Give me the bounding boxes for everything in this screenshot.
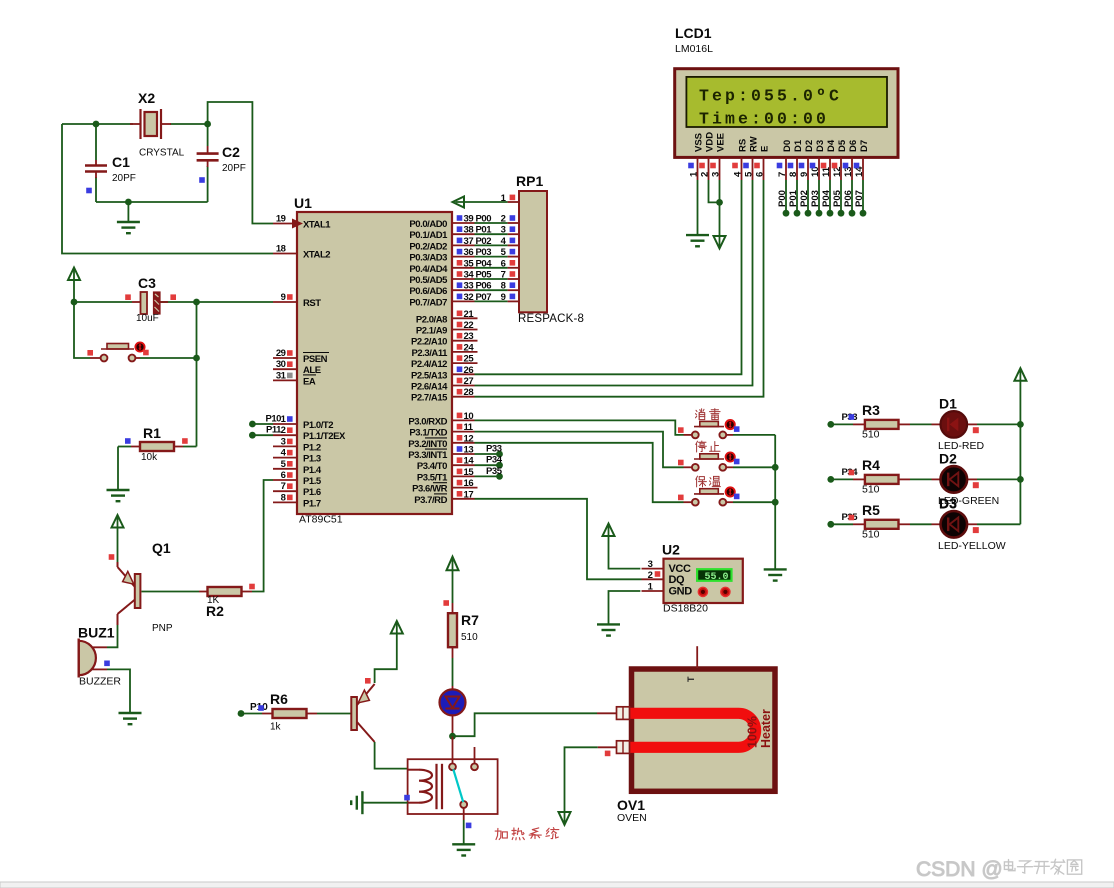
svg-text:100%: 100% xyxy=(746,716,760,748)
svg-text:D7: D7 xyxy=(859,140,870,152)
svg-text:35: 35 xyxy=(464,258,475,269)
svg-text:LCD1: LCD1 xyxy=(675,25,712,41)
svg-text:P0.0/AD0: P0.0/AD0 xyxy=(409,219,447,230)
svg-text:BUZZER: BUZZER xyxy=(79,676,121,688)
svg-text:D3: D3 xyxy=(939,495,957,511)
svg-text:6: 6 xyxy=(755,172,766,177)
svg-text:AT89C51: AT89C51 xyxy=(299,514,343,526)
svg-text:6: 6 xyxy=(501,258,506,269)
svg-text:RESPACK-8: RESPACK-8 xyxy=(518,313,584,325)
svg-text:38: 38 xyxy=(464,225,474,236)
svg-text:P34: P34 xyxy=(486,455,503,466)
svg-text:BUZ1: BUZ1 xyxy=(78,625,115,641)
svg-text:510: 510 xyxy=(461,632,478,643)
svg-text:20PF: 20PF xyxy=(222,163,246,174)
svg-text:P3.0/RXD: P3.0/RXD xyxy=(408,416,447,427)
svg-text:C3: C3 xyxy=(138,275,156,291)
svg-text:8: 8 xyxy=(281,492,286,503)
svg-text:P1.2: P1.2 xyxy=(303,442,321,453)
svg-text:Time:00:00: Time:00:00 xyxy=(699,110,829,129)
svg-text:R7: R7 xyxy=(461,612,479,628)
svg-text:PNP: PNP xyxy=(152,623,173,634)
svg-text:P06: P06 xyxy=(843,190,854,207)
svg-text:D1: D1 xyxy=(939,395,957,411)
svg-text:LED-YELLOW: LED-YELLOW xyxy=(938,540,1006,552)
svg-text:11: 11 xyxy=(464,422,474,433)
svg-text:P2.4/A12: P2.4/A12 xyxy=(411,359,447,370)
svg-text:26: 26 xyxy=(464,365,474,376)
svg-text:E: E xyxy=(759,146,770,152)
svg-text:9: 9 xyxy=(501,292,506,303)
svg-text:P3.2/INT0: P3.2/INT0 xyxy=(408,439,447,450)
svg-text:CRYSTAL: CRYSTAL xyxy=(139,148,185,159)
svg-text:9: 9 xyxy=(799,172,810,177)
svg-text:LM016L: LM016L xyxy=(675,43,713,55)
svg-text:R2: R2 xyxy=(206,603,224,619)
svg-text:2: 2 xyxy=(281,425,286,436)
svg-text:R4: R4 xyxy=(862,457,880,473)
svg-text:7: 7 xyxy=(501,270,506,281)
svg-text:R6: R6 xyxy=(270,691,288,707)
svg-text:36: 36 xyxy=(464,247,474,258)
svg-text:10uF: 10uF xyxy=(136,313,159,324)
svg-text:P1.3: P1.3 xyxy=(303,454,321,465)
svg-text:18: 18 xyxy=(276,244,286,255)
svg-text:P1.0/T2: P1.0/T2 xyxy=(303,420,333,431)
svg-text:P2.6/A14: P2.6/A14 xyxy=(411,382,448,393)
svg-text:D2: D2 xyxy=(939,450,957,466)
svg-text:31: 31 xyxy=(276,370,287,381)
svg-text:Heater: Heater xyxy=(759,709,773,748)
svg-text:2: 2 xyxy=(501,214,506,225)
svg-text:P2.2/A10: P2.2/A10 xyxy=(411,337,447,348)
svg-text:D2: D2 xyxy=(804,140,815,152)
svg-text:RP1: RP1 xyxy=(516,173,543,189)
svg-text:510: 510 xyxy=(862,483,880,495)
svg-text:P10: P10 xyxy=(265,413,281,424)
svg-text:Tep:055.0ºC: Tep:055.0ºC xyxy=(699,87,842,106)
svg-text:28: 28 xyxy=(464,387,474,398)
svg-text:P0.6/AD6: P0.6/AD6 xyxy=(409,286,447,297)
svg-text:23: 23 xyxy=(464,331,474,342)
svg-text:3: 3 xyxy=(711,172,722,177)
svg-text:8: 8 xyxy=(501,281,506,292)
svg-text:C1: C1 xyxy=(112,154,130,170)
svg-text:P2.7/A15: P2.7/A15 xyxy=(411,393,448,404)
svg-text:D0: D0 xyxy=(782,140,793,152)
svg-text:30: 30 xyxy=(276,359,286,370)
svg-text:P3.7/RD: P3.7/RD xyxy=(414,495,447,506)
svg-text:P2.0/A8: P2.0/A8 xyxy=(416,314,447,325)
svg-text:P3.6/WR: P3.6/WR xyxy=(412,484,447,495)
svg-text:P1.5: P1.5 xyxy=(303,476,322,487)
svg-text:510: 510 xyxy=(862,528,880,540)
svg-text:9: 9 xyxy=(281,292,286,303)
svg-text:P2.5/A13: P2.5/A13 xyxy=(411,370,447,381)
svg-text:55.0: 55.0 xyxy=(704,572,728,583)
svg-text:P0.1/AD1: P0.1/AD1 xyxy=(409,230,448,241)
svg-text:8: 8 xyxy=(788,172,799,177)
svg-text:P1.4: P1.4 xyxy=(303,465,322,476)
svg-text:P2.3/A11: P2.3/A11 xyxy=(412,348,449,359)
svg-text:GND: GND xyxy=(669,586,693,598)
svg-text:D6: D6 xyxy=(848,140,859,152)
svg-text:P05: P05 xyxy=(832,189,843,207)
svg-text:1: 1 xyxy=(689,171,700,177)
svg-text:1k: 1k xyxy=(270,722,282,733)
svg-text:D5: D5 xyxy=(837,139,848,152)
svg-text:U2: U2 xyxy=(662,542,680,558)
svg-text:39: 39 xyxy=(464,214,474,225)
svg-text:P11: P11 xyxy=(266,425,282,436)
svg-text:P2.1/A9: P2.1/A9 xyxy=(416,326,447,337)
svg-text:R3: R3 xyxy=(862,402,880,418)
svg-text:P04: P04 xyxy=(821,189,832,207)
svg-text:XTAL1: XTAL1 xyxy=(303,220,331,231)
svg-text:T: T xyxy=(686,676,696,682)
svg-text:P07: P07 xyxy=(854,190,865,207)
svg-text:29: 29 xyxy=(276,348,286,359)
svg-text:2: 2 xyxy=(648,570,653,581)
svg-text:D3: D3 xyxy=(815,140,826,152)
svg-text:VEE: VEE xyxy=(715,133,726,152)
svg-text:22: 22 xyxy=(464,320,474,331)
svg-text:OV1: OV1 xyxy=(617,797,645,813)
svg-text:Q1: Q1 xyxy=(152,540,171,556)
svg-text:P0.5/AD5: P0.5/AD5 xyxy=(409,275,448,286)
svg-text:R5: R5 xyxy=(862,502,880,518)
svg-text:2: 2 xyxy=(700,172,711,177)
svg-text:P3.4/T0: P3.4/T0 xyxy=(417,461,447,472)
svg-text:OVEN: OVEN xyxy=(617,812,647,824)
svg-text:U1: U1 xyxy=(294,195,312,211)
svg-text:10: 10 xyxy=(464,411,474,422)
svg-text:P3.5/T1: P3.5/T1 xyxy=(417,472,448,483)
svg-text:5: 5 xyxy=(744,171,755,177)
svg-text:3: 3 xyxy=(501,225,506,236)
svg-text:P3.3/INT1: P3.3/INT1 xyxy=(408,450,448,461)
svg-text:12: 12 xyxy=(464,433,474,444)
svg-text:VSS: VSS xyxy=(693,133,704,152)
svg-text:P33: P33 xyxy=(486,444,502,455)
svg-text:14: 14 xyxy=(464,456,475,467)
svg-text:D1: D1 xyxy=(793,139,804,152)
svg-text:32: 32 xyxy=(464,292,474,303)
svg-text:P0.2/AD2: P0.2/AD2 xyxy=(409,241,447,252)
svg-text:7: 7 xyxy=(777,172,788,177)
svg-text:C2: C2 xyxy=(222,144,240,160)
svg-text:510: 510 xyxy=(862,428,880,440)
svg-text:R1: R1 xyxy=(143,425,161,441)
svg-text:6: 6 xyxy=(281,470,286,481)
svg-text:VDD: VDD xyxy=(704,132,715,152)
svg-text:13: 13 xyxy=(464,445,474,456)
svg-text:33: 33 xyxy=(464,281,474,292)
svg-text:7: 7 xyxy=(281,481,286,492)
svg-text:DS18B20: DS18B20 xyxy=(663,603,708,615)
svg-text:RW: RW xyxy=(748,136,759,152)
svg-text:EA: EA xyxy=(303,376,316,387)
svg-text:DQ: DQ xyxy=(669,574,686,586)
svg-text:17: 17 xyxy=(464,489,474,500)
svg-text:P1.7: P1.7 xyxy=(303,498,321,509)
svg-text:25: 25 xyxy=(464,354,475,365)
svg-text:P0.7/AD7: P0.7/AD7 xyxy=(409,297,447,308)
svg-text:P01: P01 xyxy=(788,189,799,207)
svg-text:16: 16 xyxy=(464,478,474,489)
svg-text:4: 4 xyxy=(733,171,744,177)
svg-text:P00: P00 xyxy=(777,190,788,207)
svg-text:P0.3/AD3: P0.3/AD3 xyxy=(409,253,447,264)
svg-text:P35: P35 xyxy=(486,466,503,477)
svg-text:3: 3 xyxy=(281,436,286,447)
svg-text:D4: D4 xyxy=(826,139,837,152)
svg-text:P0.4/AD4: P0.4/AD4 xyxy=(409,264,448,275)
svg-text:10k: 10k xyxy=(141,452,158,463)
svg-text:P02: P02 xyxy=(799,190,810,207)
svg-text:19: 19 xyxy=(276,214,286,225)
svg-text:37: 37 xyxy=(464,236,474,247)
svg-text:24: 24 xyxy=(464,342,475,353)
svg-text:XTAL2: XTAL2 xyxy=(303,250,330,261)
svg-text:PSEN: PSEN xyxy=(303,354,328,365)
svg-text:RS: RS xyxy=(737,139,748,152)
svg-text:3: 3 xyxy=(648,559,653,570)
svg-text:P03: P03 xyxy=(810,190,821,207)
svg-text:27: 27 xyxy=(464,376,474,387)
svg-text:P1.6: P1.6 xyxy=(303,487,321,498)
svg-text:34: 34 xyxy=(464,270,475,281)
svg-text:X2: X2 xyxy=(138,90,155,106)
svg-text:P3.1/TXD: P3.1/TXD xyxy=(409,428,447,439)
svg-text:CSDN @: CSDN @ xyxy=(916,858,1003,881)
svg-text:15: 15 xyxy=(464,467,475,478)
svg-text:20PF: 20PF xyxy=(112,173,136,184)
svg-text:P1.1/T2EX: P1.1/T2EX xyxy=(303,431,346,442)
svg-text:RST: RST xyxy=(303,298,321,309)
svg-text:21: 21 xyxy=(464,309,475,320)
